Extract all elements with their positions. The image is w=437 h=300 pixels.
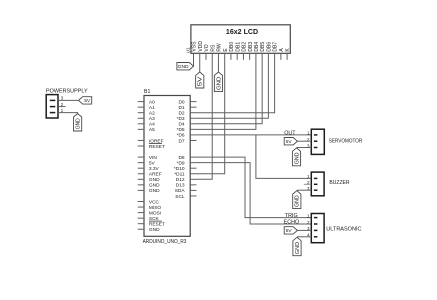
node OUT label xyxy=(284,130,296,136)
wire servo pin2 5V xyxy=(297,140,311,142)
svg-text:AREF: AREF xyxy=(149,172,162,178)
ground GND terminal (LCD VSS) xyxy=(177,63,194,71)
svg-text:5V: 5V xyxy=(149,160,156,166)
svg-text:VDD: VDD xyxy=(198,41,204,52)
svg-text:RESET: RESET xyxy=(149,144,165,150)
wire LCD DB5 to Arduino D4 xyxy=(197,53,263,124)
wire buzzer pin2 stub xyxy=(304,183,312,185)
ground GND terminal (PSU) xyxy=(74,114,82,131)
svg-text:*D10: *D10 xyxy=(174,166,185,172)
servo connector SERVOMOTOR xyxy=(307,129,362,154)
lcd pin DB2 stub xyxy=(242,53,244,60)
wire Arduino D8 TRIG to ultrasonic pin1 xyxy=(197,157,312,218)
svg-text:RESET: RESET xyxy=(149,222,165,228)
svg-text:DB7: DB7 xyxy=(273,42,279,52)
wire LCD VSS to GND xyxy=(193,53,195,66)
wire buzzer pin3 to GND xyxy=(297,189,312,191)
lcd pin K stub xyxy=(286,53,288,60)
svg-text:A4: A4 xyxy=(149,122,155,128)
ground GND terminal (servo) xyxy=(292,148,300,166)
lcd reference U1 xyxy=(185,47,190,53)
arduino B1 ARDUINO_UNO_R3 xyxy=(143,89,191,245)
svg-text:OUT: OUT xyxy=(284,130,296,136)
svg-text:GND: GND xyxy=(149,188,160,194)
power 5V terminal (PSU) xyxy=(79,97,92,105)
svg-text:GND: GND xyxy=(295,241,301,254)
svg-text:GND: GND xyxy=(294,152,300,164)
svg-text:DB4: DB4 xyxy=(254,42,260,52)
svg-text:GND: GND xyxy=(149,177,160,183)
wire LCD VDD down xyxy=(199,53,201,72)
svg-text:5V: 5V xyxy=(286,228,293,234)
svg-text:DB3: DB3 xyxy=(248,42,254,52)
svg-text:*D9: *D9 xyxy=(177,160,185,166)
svg-text:3.3V: 3.3V xyxy=(149,166,160,172)
node TRIG label xyxy=(285,213,298,219)
svg-text:*D5: *D5 xyxy=(177,127,185,133)
wire ultrasonic pin4 to GND xyxy=(297,236,311,238)
svg-text:VIN: VIN xyxy=(149,155,158,161)
svg-text:SCL: SCL xyxy=(175,194,185,200)
svg-text:TRIG: TRIG xyxy=(285,213,298,219)
svg-text:D8: D8 xyxy=(178,155,184,161)
lcd pin DB1 stub xyxy=(236,53,238,60)
wire LCD DB7 to Arduino D2 xyxy=(197,53,275,112)
svg-text:GND: GND xyxy=(149,227,160,233)
power 5V terminal (LCD VDD) xyxy=(196,72,204,88)
arduino left pins A0-A5 IOREF RESET VIN 5V 3.3V AREF GND VCC MISO MOSI SCK xyxy=(138,99,165,233)
svg-text:D12: D12 xyxy=(176,177,185,183)
lcd pin DB0 stub xyxy=(230,53,232,60)
svg-text:MISO: MISO xyxy=(149,205,162,211)
ultrasonic connector ULTRASONIC xyxy=(307,213,362,242)
svg-text:GND: GND xyxy=(216,76,222,90)
wire Arduino D9 ECHO to ultrasonic pin2 xyxy=(197,163,312,224)
svg-text:DB2: DB2 xyxy=(242,42,248,52)
svg-text:D7: D7 xyxy=(178,138,184,144)
wire LCD E to Arduino D11 xyxy=(197,53,225,173)
svg-text:RS: RS xyxy=(210,44,216,52)
svg-text:D13: D13 xyxy=(176,183,185,189)
ground GND terminal (LCD RW) xyxy=(214,72,222,92)
svg-text:D2: D2 xyxy=(178,111,184,117)
svg-text:SDA: SDA xyxy=(175,188,186,194)
lcd pin VO stub xyxy=(205,53,207,60)
svg-text:DB6: DB6 xyxy=(266,42,272,52)
svg-text:16x2 LCD: 16x2 LCD xyxy=(226,29,258,36)
svg-text:ARDUINO_UNO_R3: ARDUINO_UNO_R3 xyxy=(143,239,187,245)
wire PSU pin1 to GND xyxy=(58,113,78,114)
wire LCD DB4 to Arduino D5 xyxy=(197,53,256,129)
svg-text:GND: GND xyxy=(76,118,82,130)
ground GND terminal (buzzer) xyxy=(293,191,301,209)
ground GND terminal (ultrasonic) xyxy=(293,237,301,255)
svg-text:DB1: DB1 xyxy=(235,42,241,52)
connector J1 POWERSUPPLY xyxy=(46,89,88,118)
svg-text:BUZZER: BUZZER xyxy=(329,180,349,186)
svg-text:ECHO: ECHO xyxy=(284,219,300,225)
lcd display U1 16x2 LCD xyxy=(191,25,291,54)
svg-text:A5: A5 xyxy=(149,127,155,133)
buzzer connector BUZZER xyxy=(307,172,350,196)
svg-text:SERVOMOTOR: SERVOMOTOR xyxy=(329,139,362,145)
svg-text:A0: A0 xyxy=(149,99,155,105)
svg-text:D1: D1 xyxy=(178,105,184,111)
svg-text:GND: GND xyxy=(295,195,301,207)
svg-text:*D6: *D6 xyxy=(177,133,185,139)
svg-text:D4: D4 xyxy=(178,122,184,128)
svg-text:D0: D0 xyxy=(178,99,184,105)
svg-text:VSS: VSS xyxy=(192,41,198,52)
svg-text:5V: 5V xyxy=(286,139,293,145)
wire branch D6 to buzzer pin1 xyxy=(256,135,311,179)
lcd pin A stub xyxy=(280,53,282,60)
svg-text:A3: A3 xyxy=(149,116,155,122)
wire ultrasonic pin3 5V xyxy=(297,229,311,231)
svg-text:GND: GND xyxy=(149,183,160,189)
svg-text:VO: VO xyxy=(204,44,210,51)
power 5V terminal (ultrasonic) xyxy=(284,227,297,235)
svg-text:MOSI: MOSI xyxy=(149,210,161,216)
wire LCD DB6 to Arduino D3 xyxy=(197,53,269,118)
svg-text:A2: A2 xyxy=(149,111,155,117)
wire Arduino D6 OUT to servo pin1 xyxy=(197,134,312,136)
svg-text:DB5: DB5 xyxy=(260,42,266,52)
svg-text:*D3: *D3 xyxy=(177,116,185,122)
svg-text:5V: 5V xyxy=(198,76,204,87)
wire LCD RW down xyxy=(217,53,219,72)
svg-text:GND: GND xyxy=(178,64,189,70)
svg-text:ULTRASONIC: ULTRASONIC xyxy=(326,226,361,232)
svg-text:U1: U1 xyxy=(185,47,190,53)
svg-text:5V: 5V xyxy=(84,98,91,104)
wire PSU pin2 stub xyxy=(58,106,66,108)
svg-text:B1: B1 xyxy=(144,89,150,95)
svg-text:A1: A1 xyxy=(149,105,155,111)
svg-text:RW: RW xyxy=(217,43,223,52)
lcd pin DB3 stub xyxy=(249,53,251,60)
wire PSU pin3 to 5V xyxy=(58,99,78,101)
wire servo pin3 to GND xyxy=(297,147,312,149)
svg-text:*D11: *D11 xyxy=(174,172,185,178)
node ECHO label xyxy=(284,219,300,225)
svg-text:POWERSUPPLY: POWERSUPPLY xyxy=(46,89,88,95)
wire LCD RS to Arduino D12 xyxy=(197,53,213,179)
arduino right pins D0-D13 SDA SCL xyxy=(174,99,197,199)
svg-text:DB0: DB0 xyxy=(229,42,235,52)
power 5V terminal (servo) xyxy=(284,138,297,146)
svg-text:VCC: VCC xyxy=(149,199,160,205)
